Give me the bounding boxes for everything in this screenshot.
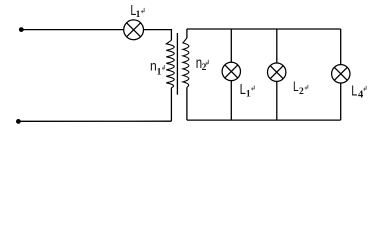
paragraph mark after n1 label xyxy=(162,65,164,70)
paragraph mark after branch L1 label xyxy=(251,86,254,91)
paragraph mark after L2 label xyxy=(305,85,308,90)
svg-text:1: 1 xyxy=(157,67,162,77)
wire: branch 1 top xyxy=(230,29,232,62)
wire: branch 2 bottom xyxy=(276,81,278,120)
wire: branch 1 bottom xyxy=(230,81,232,121)
terminal dot top-left xyxy=(19,27,24,32)
wire: lamp L1 to transformer primary xyxy=(144,29,172,31)
lamp L2 (branch 2) xyxy=(268,63,286,81)
wire top: terminal to lamp L1 xyxy=(21,29,124,31)
wire: loop bottom xyxy=(187,119,341,121)
wire bottom: transformer to terminal xyxy=(18,120,171,122)
lamp L1 (primary) xyxy=(124,20,144,40)
winding n2 (secondary coil) xyxy=(183,38,189,87)
svg-text:L: L xyxy=(351,82,357,99)
svg-text:1: 1 xyxy=(136,10,141,20)
svg-text:4: 4 xyxy=(358,89,364,100)
paragraph mark after n2 label xyxy=(206,60,209,65)
wire: loop top xyxy=(187,28,341,30)
wire: secondary bottom lead xyxy=(186,87,188,120)
wire: loop right edge top xyxy=(340,29,342,65)
terminal dot bottom-left xyxy=(16,119,21,124)
wire: branch 2 top xyxy=(276,29,278,63)
svg-text:2: 2 xyxy=(299,87,304,97)
lamp L4 (right edge) xyxy=(332,65,350,83)
wire: primary bottom lead xyxy=(170,88,172,122)
svg-text:2: 2 xyxy=(202,63,207,73)
transformer core xyxy=(176,33,178,95)
wire: primary top lead down xyxy=(170,29,172,40)
winding n1 (primary coil) xyxy=(166,40,174,87)
wire: secondary top lead xyxy=(186,29,188,38)
lamp L1 (branch 1) xyxy=(222,62,240,80)
wire: loop right edge bottom xyxy=(340,83,342,120)
paragraph mark after L1 label xyxy=(141,8,144,13)
svg-text:1: 1 xyxy=(246,90,251,100)
paragraph mark after L4 label xyxy=(363,86,366,91)
